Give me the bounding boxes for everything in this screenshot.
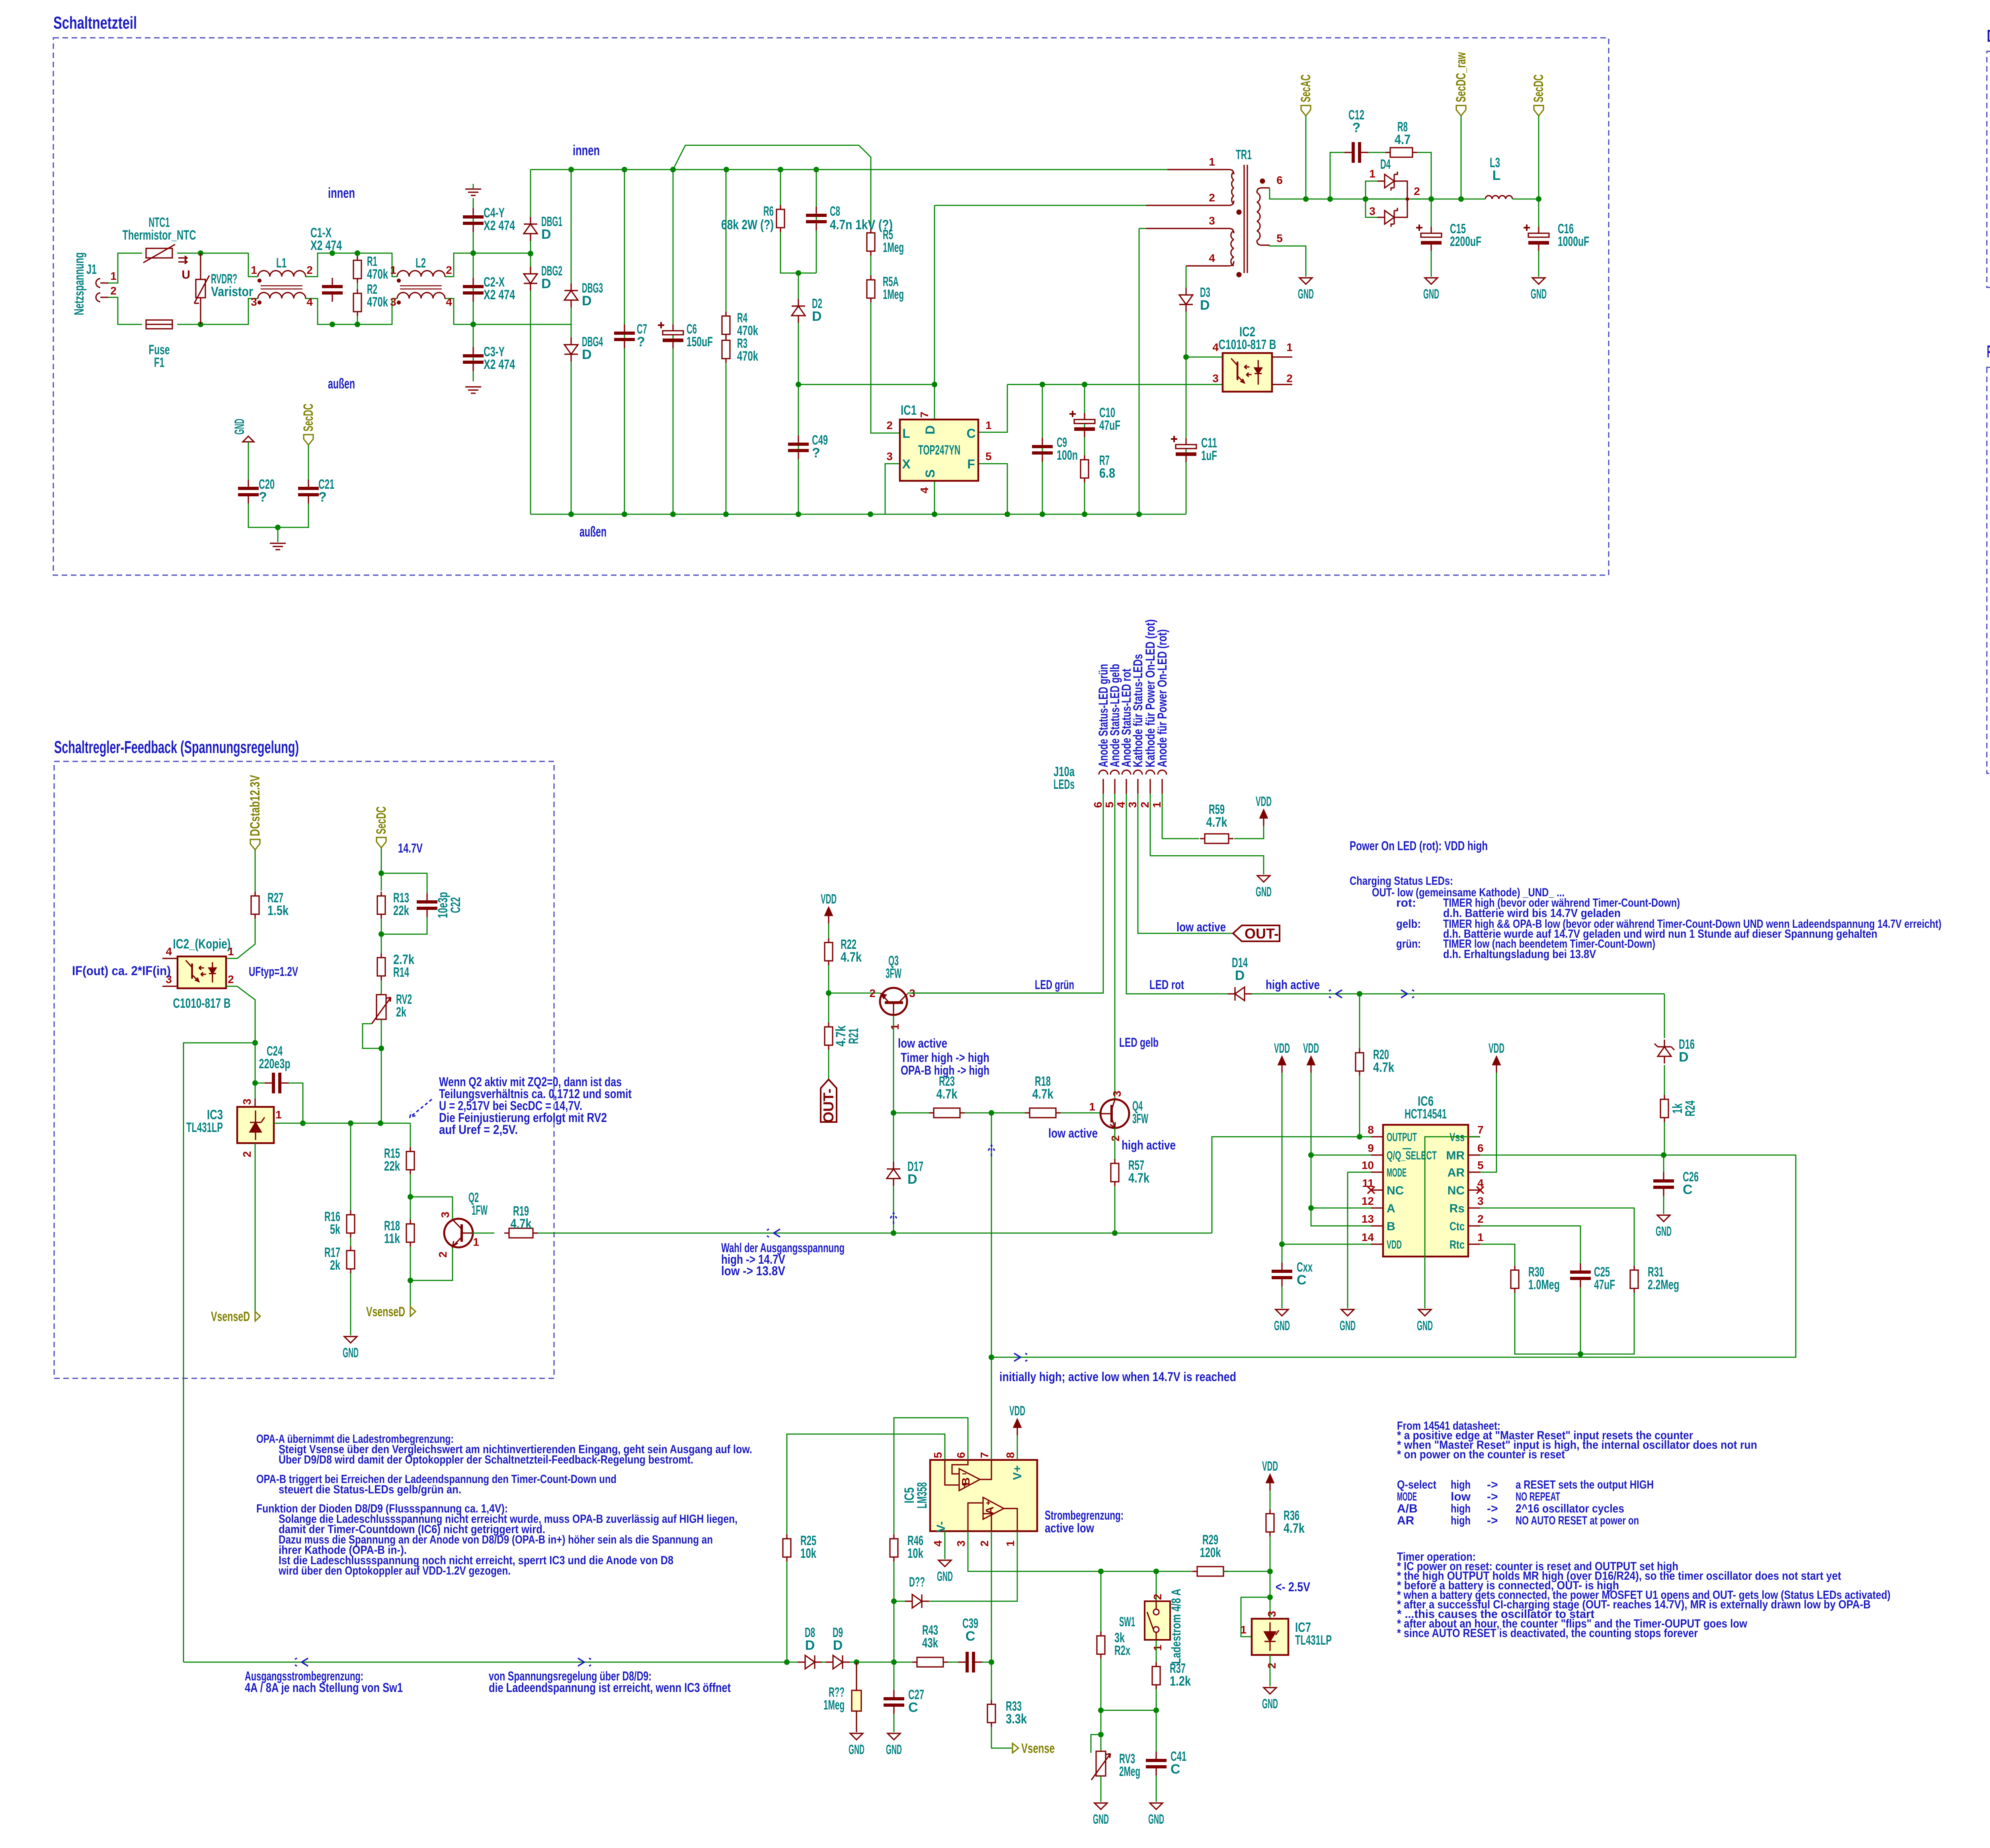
- svg-text:high active: high active: [1122, 1138, 1176, 1152]
- wire high active to D16: [1664, 994, 1665, 1038]
- wire control net to IC2 pin3: [1007, 384, 1223, 385]
- svg-text:2: 2: [1109, 1135, 1122, 1142]
- svg-text:C: C: [1297, 1272, 1307, 1288]
- wire Rtc to R30: [1480, 1244, 1515, 1266]
- svg-text:VsenseD: VsenseD: [366, 1304, 405, 1319]
- svg-text:low active: low active: [1176, 920, 1226, 934]
- junction: [932, 511, 937, 517]
- svg-text:IF(out) ca. 2*IF(in): IF(out) ca. 2*IF(in): [72, 964, 171, 978]
- wire pin8 to VDD: [1017, 1435, 1018, 1460]
- svg-text:D: D: [541, 227, 551, 242]
- earth ground (C3-Y): [465, 387, 481, 393]
- svg-text:2: 2: [1477, 1213, 1484, 1225]
- junction: [989, 1659, 994, 1665]
- svg-text:Strombegrenzung:: Strombegrenzung:: [1045, 1508, 1124, 1522]
- svg-text:22k: 22k: [384, 1159, 400, 1174]
- junction: [622, 167, 627, 172]
- wire IC1 S to bus: [934, 481, 935, 514]
- svg-text:4: 4: [166, 945, 172, 958]
- svg-text:6.8: 6.8: [1099, 466, 1115, 481]
- resistor R7: [1081, 455, 1089, 482]
- junction: [355, 322, 360, 327]
- svg-text:rot:: rot:: [1396, 896, 1416, 909]
- wire R25 to row: [786, 1561, 788, 1662]
- hierarchical label VsenseD (divider): [410, 1307, 416, 1316]
- Schaltregler-Feedback block frame: [54, 761, 554, 1378]
- svg-text:Ladestrom 4/8 A: Ladestrom 4/8 A: [1169, 1589, 1183, 1664]
- wire: [278, 503, 308, 527]
- svg-text:X: X: [902, 457, 911, 471]
- wire to Q3 base: [829, 993, 880, 994]
- power GND (MODE): [1341, 1309, 1354, 1316]
- wire IC1 F to bus: [978, 464, 1007, 514]
- no-connect X (pin 4): [1477, 1186, 1484, 1194]
- resistor R14: [377, 953, 385, 980]
- svg-text:NC: NC: [1448, 1184, 1465, 1197]
- svg-text:47uF: 47uF: [1594, 1277, 1615, 1292]
- junction: [989, 1110, 994, 1116]
- junction: [778, 167, 783, 172]
- capacitor C41: [1146, 1752, 1167, 1776]
- resistor R5: [867, 228, 875, 256]
- junction: [622, 511, 627, 517]
- svg-text:V-: V-: [935, 1521, 948, 1532]
- junction: [1327, 196, 1333, 202]
- wire feedback row (long): [183, 1662, 798, 1663]
- overline Q_SELECT: [1403, 1148, 1411, 1149]
- svg-text:X2 474: X2 474: [310, 238, 342, 253]
- wire Ctc to C25: [1480, 1226, 1580, 1263]
- power GND (C15): [1425, 278, 1438, 284]
- IC body IC2 optocoupler: [1223, 353, 1272, 392]
- wire AR to VDD: [1480, 1073, 1496, 1172]
- connector J1: [96, 279, 108, 302]
- svg-text:Schaltnetzteil: Schaltnetzteil: [53, 13, 137, 33]
- junction: [723, 511, 729, 517]
- VDD power (AR): [1493, 1057, 1500, 1073]
- wire: [870, 256, 872, 275]
- polarized capacitor C11: [1171, 436, 1196, 462]
- wire Q2 emitter down: [410, 1247, 453, 1280]
- capacitor C26: [1653, 1172, 1674, 1196]
- svg-text:C22: C22: [448, 897, 463, 913]
- svg-text:D: D: [541, 276, 551, 291]
- wire Q2 base to R19: [472, 1233, 494, 1234]
- svg-text:3: 3: [251, 296, 257, 308]
- svg-text:GND: GND: [1262, 1696, 1278, 1711]
- power GND (C41): [1150, 1803, 1163, 1809]
- wire to IC7: [1270, 1571, 1271, 1619]
- svg-text:5k: 5k: [330, 1222, 340, 1237]
- junction: [1082, 382, 1087, 387]
- capacitor C9: [1032, 438, 1053, 462]
- wire: [445, 299, 571, 324]
- junction: [1098, 1707, 1104, 1713]
- svg-text:3: 3: [1126, 802, 1139, 808]
- svg-text:2200uF: 2200uF: [1450, 234, 1481, 249]
- capacitor C12: [1344, 142, 1368, 163]
- wire: [177, 253, 258, 277]
- svg-text:C8: C8: [830, 204, 840, 219]
- wire C8 branch: [816, 170, 817, 273]
- opamp B internals: [945, 1460, 991, 1491]
- wire OPA-B output column: [991, 1113, 992, 1357]
- wire: [850, 1662, 917, 1663]
- svg-text:C1010-817 B: C1010-817 B: [173, 996, 231, 1011]
- resistor R23: [929, 1108, 965, 1118]
- wire Rs to R31: [1480, 1208, 1634, 1266]
- wire RV2 to output row: [381, 1048, 382, 1123]
- svg-text:->: ->: [1487, 1490, 1498, 1503]
- hierarchical label Vsense (IC5): [1013, 1743, 1018, 1753]
- diode D14: [1228, 987, 1252, 1001]
- svg-text:D: D: [805, 1638, 815, 1653]
- wire: [894, 1714, 895, 1732]
- svg-text:A: A: [983, 1507, 996, 1514]
- svg-text:J1: J1: [86, 262, 97, 277]
- svg-text:?: ?: [318, 490, 327, 505]
- VDD power (IC6 VDD): [1278, 1057, 1286, 1073]
- svg-text:L: L: [1492, 168, 1501, 183]
- svg-text:1: 1: [1004, 1540, 1016, 1547]
- capacitor C21: [298, 480, 319, 503]
- wire R4/R3 column: [726, 170, 727, 514]
- svg-text:1uF: 1uF: [1201, 448, 1217, 463]
- wire OPA-B out to pin7: [991, 1357, 992, 1460]
- capacitor C4-Y: [463, 208, 484, 232]
- transistor Q2 1FW: [444, 1219, 473, 1247]
- wire: [350, 1273, 351, 1335]
- junction: [568, 167, 574, 172]
- resistor R16: [347, 1210, 355, 1237]
- svg-text:2: 2: [1266, 1663, 1278, 1669]
- svg-text:2.2Meg: 2.2Meg: [1648, 1277, 1679, 1292]
- diode D??: [905, 1594, 929, 1608]
- wire pin5 to R25: [787, 1434, 945, 1534]
- wire secondary pin5 to GND: [1270, 245, 1306, 277]
- wire: [1417, 152, 1431, 199]
- junction: [1267, 1594, 1273, 1600]
- opamp A internals: [968, 1497, 1017, 1531]
- svg-text:Ctc: Ctc: [1450, 1220, 1465, 1233]
- svg-text:TL431LP: TL431LP: [1295, 1633, 1332, 1648]
- diode DBG3: [564, 283, 578, 307]
- svg-text:220e3p: 220e3p: [259, 1056, 291, 1071]
- svg-text:Rtc: Rtc: [1450, 1238, 1465, 1251]
- wire R46 to row: [894, 1561, 895, 1662]
- svg-text:GND: GND: [1298, 287, 1314, 302]
- signal arrow (dashed) OPA-B: [988, 1145, 995, 1156]
- svg-text:7: 7: [918, 412, 931, 418]
- svg-text:GND: GND: [849, 1742, 864, 1757]
- svg-text:GND: GND: [937, 1569, 953, 1584]
- wire: [1431, 199, 1432, 227]
- wire außen bus: [531, 514, 1186, 515]
- VDD power (R59): [1260, 810, 1267, 826]
- resistor R6: [776, 205, 784, 232]
- wire snubber hat to R5: [673, 145, 871, 233]
- svg-text:2: 2: [1209, 191, 1215, 204]
- svg-text:1.0Meg: 1.0Meg: [1528, 1277, 1560, 1292]
- wire: [893, 1113, 894, 1162]
- svg-text:NO AUTO RESET at power on: NO AUTO RESET at power on: [1516, 1514, 1639, 1527]
- direction glyph >: [1401, 990, 1414, 998]
- svg-text:1: 1: [390, 264, 396, 276]
- wire: [1114, 1186, 1116, 1233]
- svg-text:1.5k: 1.5k: [267, 903, 289, 918]
- direction glyph <: [1329, 990, 1342, 998]
- junction: [891, 1659, 897, 1665]
- svg-text:4: 4: [306, 296, 313, 308]
- svg-text:3FW: 3FW: [886, 966, 901, 981]
- svg-text:SecDC: SecDC: [301, 404, 316, 431]
- resistor R36: [1266, 1509, 1274, 1536]
- junction: [330, 322, 335, 327]
- power GND (feedback divider): [344, 1337, 357, 1343]
- wire Q3 emitter: [893, 1015, 894, 1113]
- svg-text:D: D: [582, 347, 592, 362]
- svg-text:68k 2W (?): 68k 2W (?): [721, 217, 774, 232]
- junction: [891, 1110, 896, 1116]
- direction glyph < (row): [295, 1658, 308, 1666]
- resistor R17: [347, 1246, 355, 1273]
- wire: [305, 299, 387, 324]
- junction: [252, 1040, 258, 1046]
- junction: [348, 1120, 353, 1126]
- svg-text:high: high: [1451, 1478, 1471, 1491]
- svg-text:4A / 8A je nach Stellung von S: 4A / 8A je nach Stellung von Sw1: [245, 1680, 403, 1695]
- junction: [670, 167, 676, 172]
- svg-text:SecDC: SecDC: [1531, 74, 1546, 102]
- wire: [108, 253, 142, 283]
- wire: [473, 324, 474, 381]
- svg-text:OUT-: OUT-: [1245, 925, 1279, 942]
- svg-text:A/B: A/B: [1397, 1502, 1418, 1515]
- svg-text:Timer high -> high: Timer high -> high: [901, 1050, 989, 1065]
- wire: [1538, 116, 1539, 199]
- svg-text:1: 1: [889, 1024, 901, 1030]
- wire: [965, 1112, 1030, 1114]
- svg-text:X2 474: X2 474: [484, 287, 515, 302]
- DC Stabi block frame: [1987, 51, 1990, 287]
- svg-text:1Meg: 1Meg: [883, 240, 904, 255]
- svg-text:VDD: VDD: [821, 892, 837, 907]
- svg-text:wird über den Optokoppler auf: wird über den Optokoppler auf VDD-1.2V g…: [278, 1564, 511, 1577]
- svg-text:2: 2: [110, 285, 117, 297]
- wire: [828, 1050, 829, 1079]
- resistor 3k R2x: [1097, 1631, 1105, 1659]
- potentiometer RV3: [1091, 1751, 1110, 1780]
- svg-text:4: 4: [446, 296, 452, 308]
- svg-text:SecAC: SecAC: [1298, 74, 1313, 102]
- svg-text:Thermistor_NTC: Thermistor_NTC: [123, 228, 196, 243]
- svg-text:22k: 22k: [393, 903, 409, 918]
- diode DBG4: [564, 338, 578, 361]
- svg-text:3: 3: [439, 1212, 451, 1218]
- svg-text:1: 1: [1477, 1231, 1484, 1243]
- hierarchical label SecAC: [1301, 105, 1311, 116]
- earth ground (C20/C21): [270, 543, 286, 550]
- junction: [198, 322, 203, 327]
- resistor R59: [1200, 834, 1233, 843]
- svg-text:high: high: [1451, 1502, 1471, 1515]
- svg-text:3: 3: [241, 1099, 253, 1105]
- wire TR1 pin3: [1139, 228, 1146, 229]
- wire pin6 to R46: [894, 1418, 968, 1534]
- power GND (J10a): [1257, 876, 1270, 882]
- thermistor NTC1: [143, 244, 187, 264]
- resistor R3: [722, 336, 730, 363]
- wire: [828, 965, 829, 1023]
- svg-text:DCstab12.3V: DCstab12.3V: [248, 775, 263, 836]
- svg-text:high: high: [1451, 1514, 1471, 1527]
- svg-text:3: 3: [1111, 1091, 1123, 1097]
- wire pin14: [1282, 1244, 1371, 1245]
- capacitor C1-X: [322, 278, 343, 302]
- svg-text:1: 1: [1089, 1101, 1095, 1113]
- wire C7 column: [624, 170, 625, 514]
- fuse F1: [146, 320, 172, 329]
- junction: [1279, 1241, 1285, 1247]
- svg-text:1: 1: [110, 270, 117, 282]
- wire: [948, 1662, 958, 1663]
- power GND (Cxx): [1276, 1309, 1288, 1316]
- junction: [355, 250, 360, 256]
- svg-text:LED gelb: LED gelb: [1119, 1035, 1159, 1050]
- svg-text:3FW: 3FW: [1132, 1111, 1148, 1126]
- svg-text:HCT14541: HCT14541: [1405, 1106, 1447, 1122]
- capacitor C27: [884, 1690, 904, 1714]
- resistor R4: [722, 312, 730, 339]
- wire: [828, 923, 829, 938]
- svg-text:14: 14: [1362, 1231, 1374, 1243]
- svg-text:6: 6: [1276, 174, 1283, 186]
- wire J10a pin2 to GND: [1150, 794, 1264, 874]
- svg-text:VDD: VDD: [1262, 1459, 1278, 1474]
- wire C22 bottom: [381, 917, 427, 934]
- hierarchical label VsenseD (IC3): [250, 1316, 255, 1321]
- wire: [108, 297, 142, 324]
- wire D4 pin3: [1366, 199, 1377, 217]
- svg-text:1: 1: [228, 945, 234, 958]
- wire TR1 pin2: [935, 205, 1146, 206]
- svg-text:MR: MR: [1446, 1149, 1465, 1162]
- diode D4 upper: [1377, 172, 1401, 191]
- svg-text:DC Stabi 12.3V (VDD): DC Stabi 12.3V (VDD): [1987, 26, 1990, 46]
- wire: [1538, 251, 1539, 277]
- wire: [1282, 1286, 1283, 1308]
- resistor R57: [1111, 1159, 1119, 1186]
- svg-text:2: 2: [1139, 802, 1151, 808]
- svg-text:R2x: R2x: [1114, 1643, 1130, 1658]
- svg-text:2k: 2k: [396, 1005, 406, 1020]
- Schaltnetzteil block frame: [53, 38, 1609, 575]
- svg-text:4: 4: [932, 1540, 944, 1547]
- svg-text:2: 2: [306, 264, 313, 276]
- junction: [989, 1354, 994, 1360]
- FAN block frame: [1987, 367, 1990, 773]
- wire to VsenseD 2: [410, 1280, 411, 1311]
- svg-text:D: D: [907, 1172, 917, 1187]
- polarized capacitor C16: [1524, 224, 1549, 251]
- svg-text:UFtyp=1.2V: UFtyp=1.2V: [249, 964, 298, 979]
- junction: [826, 990, 831, 996]
- svg-text:TOP247YN: TOP247YN: [918, 443, 960, 458]
- svg-text:GND: GND: [886, 1742, 902, 1757]
- svg-text:steuert die Status-LEDs gelb/g: steuert die Status-LEDs gelb/grün an.: [279, 1483, 461, 1496]
- svg-text:R21: R21: [846, 1028, 861, 1044]
- wire R1/R2 column: [357, 253, 358, 324]
- wire pin2 column: [991, 1531, 992, 1662]
- signal arrow (dashed) D17: [890, 1213, 897, 1224]
- svg-text:VDD: VDD: [1274, 1041, 1290, 1056]
- svg-text:2: 2: [886, 419, 893, 431]
- junction: [198, 250, 203, 256]
- svg-text:GND: GND: [1656, 1224, 1672, 1239]
- svg-text:GND: GND: [1148, 1812, 1164, 1827]
- svg-text:VDD: VDD: [1489, 1041, 1504, 1056]
- junction: [1308, 1205, 1314, 1211]
- junction: [1661, 1152, 1666, 1158]
- wire R6 branch: [780, 170, 816, 273]
- svg-text:a RESET sets the output HIGH: a RESET sets the output HIGH: [1516, 1478, 1654, 1491]
- wire D4 cathodes: [1401, 181, 1407, 217]
- wire: [894, 1601, 905, 1602]
- hierarchical sheet pin OUT- (J10a): [1233, 925, 1280, 941]
- svg-text:B: B: [960, 1477, 972, 1485]
- wire: [445, 253, 531, 277]
- wire R27 to IC2 pin1: [226, 919, 255, 958]
- junction: [568, 511, 574, 517]
- junction: [796, 270, 801, 276]
- svg-text:VDD: VDD: [1387, 1238, 1402, 1251]
- svg-text:VDD: VDD: [1009, 1403, 1025, 1419]
- capacitor C39: [958, 1652, 982, 1672]
- TL431 internals IC7: [1264, 1622, 1279, 1651]
- wire output row: [303, 1123, 410, 1124]
- wire: [277, 527, 279, 542]
- wire: [1223, 1571, 1270, 1572]
- svg-text:D: D: [812, 309, 822, 324]
- direction glyph < (Wahl): [767, 1229, 780, 1237]
- capacitor Cxx: [1272, 1263, 1292, 1286]
- wire R33 to Vsense: [991, 1727, 1012, 1748]
- power GND (C20): [243, 436, 254, 442]
- wire RV2 wiper loop: [363, 1024, 381, 1048]
- wire to 3k resistor: [1100, 1571, 1102, 1631]
- resistor R15: [406, 1147, 414, 1174]
- transformer TR1: [1146, 165, 1270, 277]
- power GND (C27): [888, 1733, 900, 1740]
- IC body IC7 TL431LP: [1252, 1619, 1288, 1655]
- svg-text:4.7k: 4.7k: [841, 950, 862, 965]
- junction: [470, 250, 476, 256]
- wire pin1 to D??: [929, 1531, 1017, 1601]
- wire R18 to Q4 base: [1061, 1112, 1100, 1114]
- IC6 pin leads: [1371, 1137, 1480, 1244]
- wire C6 column: [673, 170, 674, 514]
- resistor R?? (1Meg): [852, 1662, 861, 1732]
- svg-text:4.7k: 4.7k: [936, 1087, 958, 1102]
- resistor R5A: [867, 275, 875, 302]
- svg-text:D: D: [1235, 968, 1245, 983]
- junction: [408, 1194, 413, 1200]
- wire pin10 MODE: [1348, 1172, 1371, 1173]
- wire C9 column: [1042, 384, 1043, 514]
- svg-text:Netzspannung: Netzspannung: [72, 252, 87, 315]
- junction: [330, 250, 335, 256]
- svg-text:VsenseD: VsenseD: [211, 1309, 250, 1324]
